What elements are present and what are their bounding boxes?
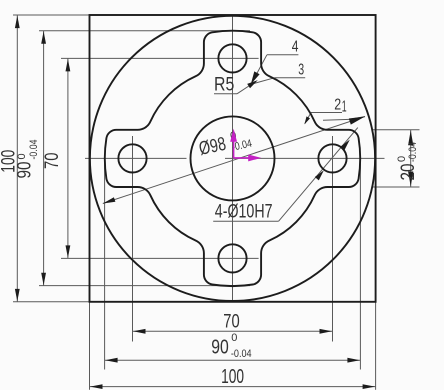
svg-text:R5: R5: [214, 74, 234, 95]
svg-text:70: 70: [223, 312, 239, 333]
svg-text:90: 90: [211, 337, 229, 359]
svg-text:0: 0: [231, 332, 237, 344]
svg-text:20: 20: [398, 164, 419, 181]
svg-text:-0.04: -0.04: [407, 142, 419, 162]
svg-text:90: 90: [14, 162, 35, 179]
svg-text:3: 3: [298, 62, 304, 79]
svg-text:70: 70: [42, 153, 63, 170]
svg-text:-0.04: -0.04: [28, 140, 40, 160]
svg-text:-0.04: -0.04: [231, 348, 252, 360]
svg-text:4: 4: [292, 38, 299, 55]
svg-text:1: 1: [342, 99, 347, 116]
svg-text:0: 0: [16, 153, 28, 159]
svg-text:2: 2: [334, 96, 341, 113]
svg-text:4-Ø10H7: 4-Ø10H7: [215, 201, 273, 222]
svg-text:100: 100: [221, 366, 244, 388]
